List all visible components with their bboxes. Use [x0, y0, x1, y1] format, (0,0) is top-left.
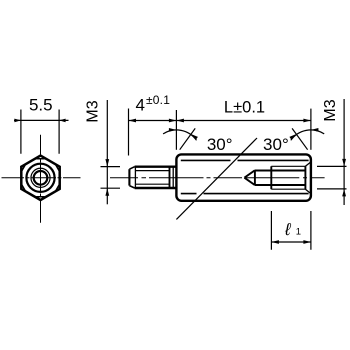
stud outer thread lines: [135, 167, 177, 188]
5.5 arrowheads: [14, 119, 21, 123]
stud tip face: [128, 169, 130, 185]
right extension line at body right: [310, 109, 312, 150]
internal thread minor lines: [271, 171, 305, 186]
svg-text:1: 1: [296, 226, 301, 237]
internal thread start vertical: [270, 166, 272, 189]
svg-text:M3: M3: [322, 99, 339, 121]
arrowheads top dimension: [129, 119, 137, 123]
side view centerline: [110, 177, 325, 179]
4±0.1 left extension line: [128, 109, 130, 156]
vertical centerline of end view: [40, 135, 42, 223]
thread entry chamfer lines: [305, 162, 310, 193]
internal thread major lines: [271, 166, 305, 189]
svg-text:30°: 30°: [263, 135, 289, 154]
drill cone: [244, 170, 255, 185]
30° callout right: chamfer direction line: [292, 128, 308, 149]
stud shoulder vertical: [172, 167, 174, 188]
l1 extension lines: [271, 211, 311, 250]
svg-text:ℓ: ℓ: [284, 220, 291, 239]
M3 left dimension line with arrows: [106, 100, 108, 204]
drill hole lines: [255, 171, 271, 186]
M3 right dimension line with arrows: [343, 99, 345, 205]
30° callout left: angle arc: [163, 130, 196, 140]
hex flat edge bottom line: [181, 193, 309, 195]
hex body outline (end view): [21, 156, 59, 200]
hex corner chamfer facet lines: [21, 159, 59, 197]
tap hole circle: [34, 171, 48, 185]
stud tip chamfers: [129, 167, 134, 188]
stud thread runout vertical: [169, 167, 171, 188]
stud chamfer-end vertical: [134, 167, 136, 188]
hex flat edge top line: [181, 159, 309, 161]
hex spacer body outline: [176, 154, 311, 200]
hex flats diagonal indicator line: [176, 138, 257, 219]
l1 arrowheads: [271, 240, 279, 244]
chamfer circle: [26, 164, 54, 192]
30° callout right: angle arc: [291, 130, 324, 140]
internal thread end face: [304, 166, 306, 189]
M3 right extension lines: [317, 166, 347, 189]
svg-text:4: 4: [136, 96, 145, 115]
top dimension line (4 and L): [129, 120, 311, 122]
thread major circle: [31, 168, 50, 187]
stud thread minor lines: [135, 171, 169, 185]
horizontal centerline of end view: [2, 177, 81, 179]
l1 dimension line: [271, 241, 311, 243]
svg-text:±0.1: ±0.1: [146, 93, 170, 107]
5.5 dimension line: [14, 119, 69, 121]
30° callout left: arc arrowheads: [169, 128, 177, 132]
svg-text:30°: 30°: [207, 135, 233, 154]
30° callout left: chamfer direction line: [180, 128, 196, 149]
shared extension line at body left: [175, 110, 177, 150]
svg-text:L±0.1: L±0.1: [224, 98, 265, 116]
5.5 dimension extension lines: [21, 110, 59, 154]
svg-text:M3: M3: [85, 100, 102, 122]
M3 left extension ticks: [101, 167, 121, 189]
30° callout right: arc arrowheads: [311, 128, 319, 132]
svg-text:5.5: 5.5: [29, 95, 53, 114]
